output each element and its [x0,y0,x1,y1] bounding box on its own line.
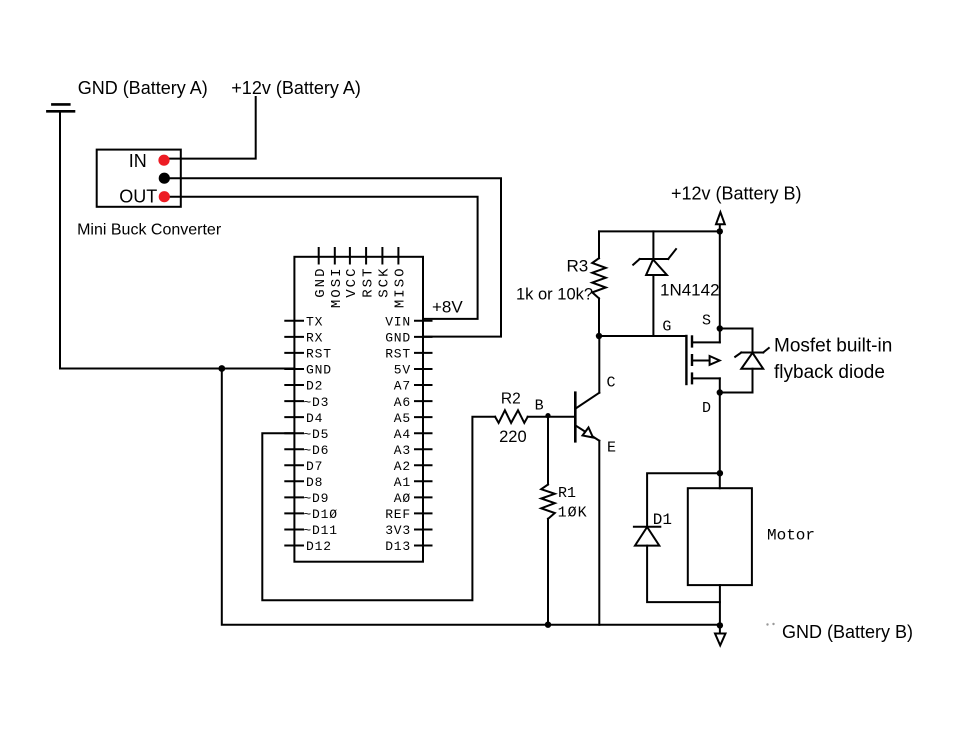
svg-text:220: 220 [499,428,527,446]
svg-text:REF: REF [385,507,411,522]
svg-text:VIN: VIN [385,315,411,330]
svg-text:3V3: 3V3 [385,523,411,538]
svg-text:B: B [535,398,544,415]
svg-text:GND: GND [385,331,411,346]
svg-text:D13: D13 [385,539,411,554]
svg-text:D4: D4 [306,411,323,426]
svg-text:IN: IN [129,151,147,171]
svg-text:Motor: Motor [767,527,815,545]
svg-text:RST: RST [360,267,376,298]
svg-text:OUT: OUT [119,187,157,207]
svg-text:SCK: SCK [377,267,393,298]
svg-text:+12v (Battery A): +12v (Battery A) [231,78,361,98]
svg-text:VCC: VCC [344,267,360,298]
svg-text:A5: A5 [394,411,411,426]
svg-text:TX: TX [306,315,323,330]
svg-text:+12v (Battery B): +12v (Battery B) [671,183,802,203]
svg-text:~D6: ~D6 [303,443,329,458]
svg-text:1ØK: 1ØK [558,505,588,522]
svg-text:1N4142: 1N4142 [660,281,720,300]
svg-text:A7: A7 [394,379,411,394]
svg-text:~D9: ~D9 [303,491,329,506]
svg-text:Mosfet built-in: Mosfet built-in [774,336,892,357]
svg-text:A3: A3 [394,443,411,458]
svg-text:E: E [607,439,616,456]
svg-text:~D11: ~D11 [303,523,337,538]
svg-text:D2: D2 [306,379,323,394]
svg-text:RX: RX [306,331,323,346]
svg-text:GND: GND [313,267,329,298]
svg-text:D7: D7 [306,459,323,474]
svg-text:D1: D1 [653,511,672,529]
svg-text:D12: D12 [306,539,332,554]
svg-text:MOSI: MOSI [329,267,345,309]
svg-text:R3: R3 [567,257,589,276]
svg-text:A1: A1 [394,475,411,490]
svg-text:D8: D8 [306,475,323,490]
svg-text:A2: A2 [394,459,411,474]
svg-text:RST: RST [385,347,411,362]
svg-text:A6: A6 [394,395,411,410]
svg-text:C: C [607,375,616,392]
svg-text:GND (Battery A): GND (Battery A) [78,78,208,98]
svg-text:~D1Ø: ~D1Ø [303,507,337,522]
svg-text:~D5: ~D5 [303,427,329,442]
svg-text:R1: R1 [558,485,576,502]
svg-text:RST: RST [306,347,332,362]
svg-text:flyback diode: flyback diode [774,362,885,383]
svg-text:GND (Battery B): GND (Battery B) [782,622,913,642]
svg-text:AØ: AØ [394,491,411,506]
svg-text:1k or 10k?: 1k or 10k? [516,286,593,304]
svg-text:G: G [662,318,671,335]
svg-text:+8V: +8V [432,298,463,317]
svg-text:R2: R2 [501,390,521,407]
svg-text:D: D [702,400,711,417]
svg-text:A4: A4 [394,427,411,442]
svg-text:~D3: ~D3 [303,395,329,410]
svg-text:S: S [702,312,711,329]
svg-text:Mini Buck Converter: Mini Buck Converter [77,222,222,239]
svg-text:GND: GND [306,363,332,378]
svg-text:MISO: MISO [393,267,409,309]
svg-text:5V: 5V [394,363,411,378]
